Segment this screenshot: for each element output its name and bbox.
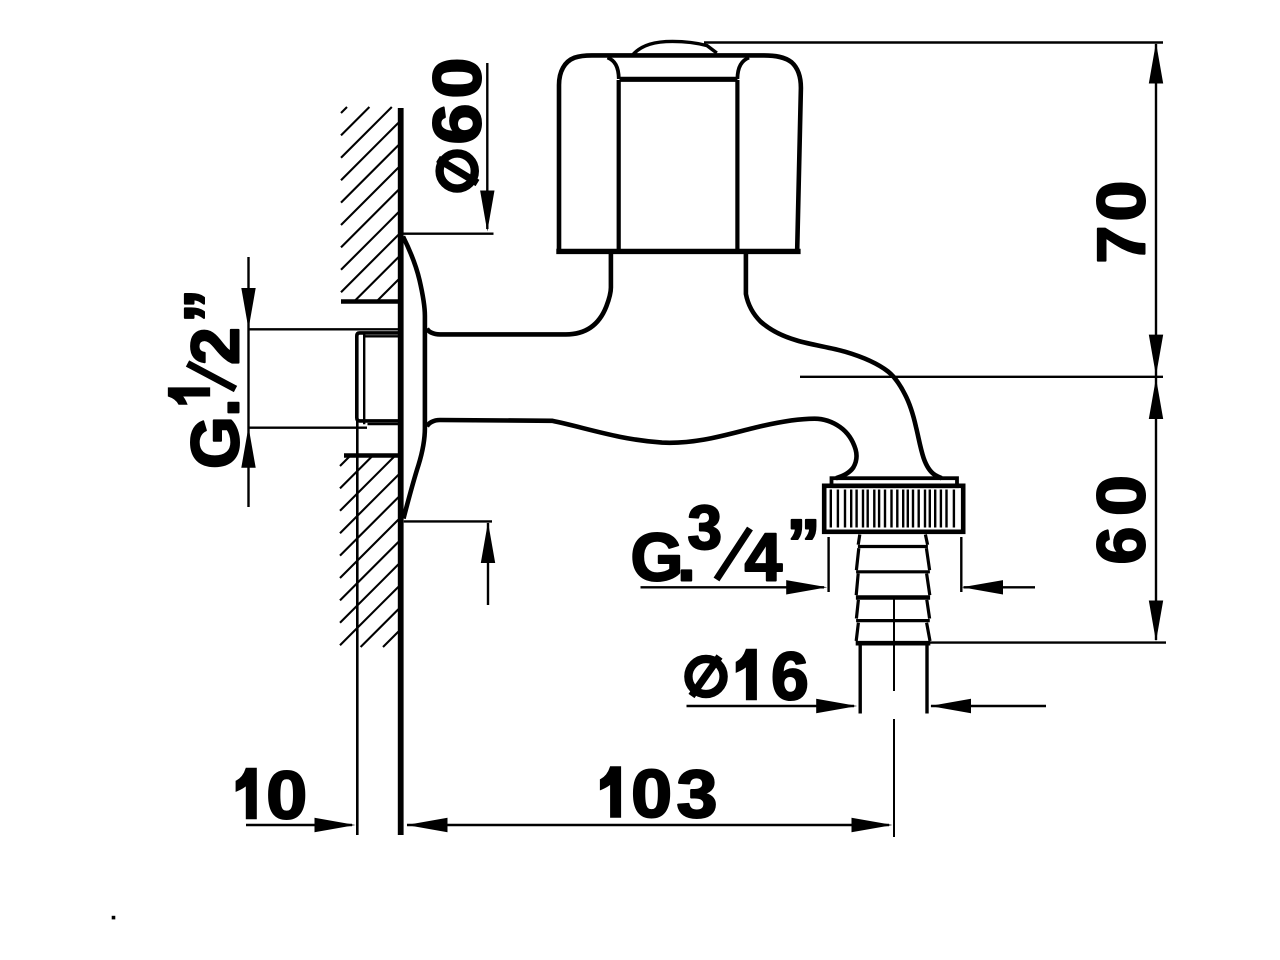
hose barb section edges: [856, 535, 930, 642]
svg-text:”: ”: [787, 506, 821, 582]
nozzle centerline: [893, 596, 895, 837]
wall back line: [356, 420, 359, 835]
svg-text:6: 6: [420, 104, 496, 145]
label G.1/2" (rotated): [169, 289, 254, 469]
svg-text:”: ”: [171, 289, 247, 323]
svg-text:4: 4: [745, 520, 783, 596]
Ø60 arrows: [480, 191, 495, 564]
G 1/2 dimension line: [247, 257, 249, 507]
spout right outline from handle neck: [746, 252, 942, 478]
G 3/4 dimension line: [641, 586, 1036, 588]
handle inner left fillet: [608, 58, 619, 80]
70/60 arrows: [1149, 43, 1163, 642]
handle knob outer outline: [559, 55, 801, 249]
G 3/4 arrows: [786, 580, 1003, 594]
label 60 (rotated): [1084, 475, 1160, 565]
Ø16 dimension line: [687, 705, 1047, 707]
dimension Ø60 leader line bottom: [487, 523, 489, 605]
wall front face line: [398, 108, 404, 835]
label G.3/4": [631, 494, 821, 596]
handle inner right fillet: [737, 58, 749, 80]
stray dot bottom left: [112, 916, 116, 920]
wall hatch top block: [341, 107, 399, 301]
wall top block bottom edge: [341, 299, 398, 303]
G 3/4 extension lines: [829, 537, 962, 592]
hose nozzle end tube: [860, 646, 927, 714]
hose union knurled ring: [824, 486, 963, 532]
svg-text:.: .: [178, 398, 254, 417]
label 10: [236, 758, 307, 834]
nipple chamfer line: [363, 335, 365, 425]
label Ø60 (rotated): [420, 58, 496, 189]
svg-text:0: 0: [631, 756, 672, 832]
G 1/2 extension lines: [249, 329, 398, 427]
escutcheon flange outline: [403, 237, 425, 519]
G 1/2 arrows: [241, 288, 255, 468]
G 1/2 threaded nipple: [357, 333, 398, 421]
flange top extension line: [402, 232, 494, 234]
svg-text:2: 2: [178, 327, 254, 365]
handle inner vertical lines: [619, 80, 738, 249]
70/60 dimension line right: [1155, 44, 1157, 640]
wall bottom block top edge: [344, 453, 399, 457]
svg-text:G: G: [178, 416, 254, 469]
10 / 103 arrows: [315, 818, 893, 832]
svg-text:G: G: [631, 520, 684, 596]
flange bottom extension line: [404, 520, 492, 522]
label Ø16: [688, 639, 808, 715]
svg-text:3: 3: [677, 756, 718, 832]
handle knob bottom edge: [556, 249, 800, 254]
svg-text:3: 3: [688, 494, 722, 563]
svg-text:6: 6: [771, 639, 809, 715]
svg-text:0: 0: [1084, 181, 1160, 222]
svg-text:7: 7: [1084, 226, 1160, 264]
Ø16 arrows: [816, 699, 971, 713]
wall hatch bottom block: [340, 456, 399, 647]
svg-text:0: 0: [420, 58, 496, 99]
middle extension line (tap axis): [800, 376, 1163, 378]
label 103: [601, 756, 718, 832]
tap body bottom edge and spout left outline: [427, 419, 857, 479]
tap body top edge with neck fillet: [427, 252, 611, 334]
dimension Ø60 leader line top: [486, 63, 488, 229]
label 70 (rotated): [1084, 181, 1160, 264]
svg-text:6: 6: [1084, 527, 1160, 565]
hose barb divider lines: [858, 545, 928, 548]
svg-text:0: 0: [266, 758, 307, 834]
top extension line from handle dome: [704, 41, 1163, 43]
10 / 103 dimension line: [246, 824, 889, 826]
hose union cap: [832, 478, 958, 486]
handle dome arc: [633, 41, 717, 54]
handle inner top line: [620, 77, 738, 82]
bottom extension line (nozzle end): [929, 641, 1166, 643]
svg-text:0: 0: [1084, 475, 1160, 516]
knurl lines: [831, 490, 954, 528]
nipple thread root lines: [364, 336, 398, 424]
